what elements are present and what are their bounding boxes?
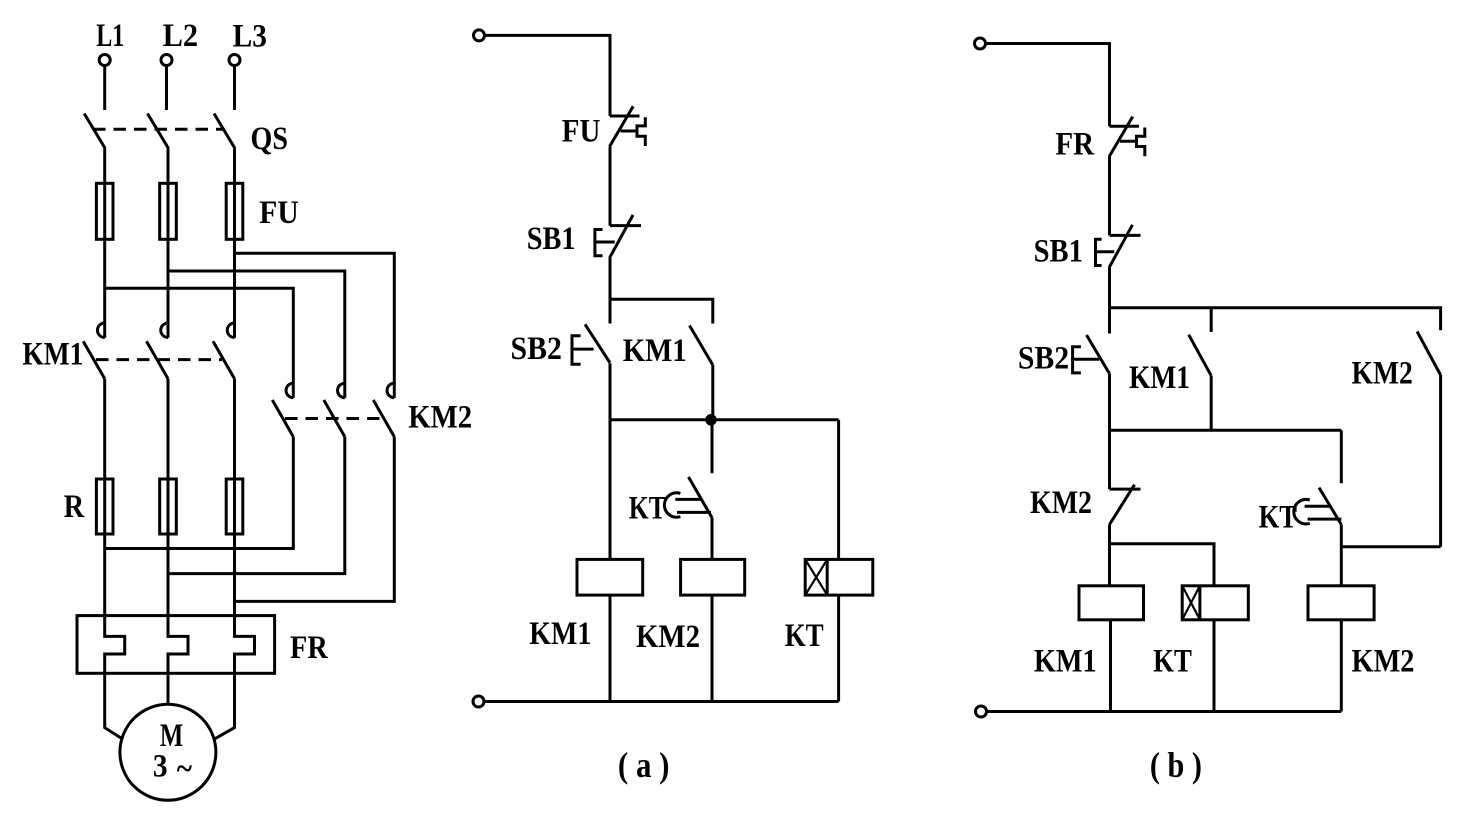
coil KT (b) <box>1182 586 1248 712</box>
wire <box>233 66 236 111</box>
thermal relay FR box <box>77 616 275 674</box>
coil KM1 (a) <box>577 559 643 701</box>
wire <box>167 673 170 704</box>
svg-text:SB1: SB1 <box>527 221 576 257</box>
wire <box>103 66 106 111</box>
wire <box>168 271 345 398</box>
svg-text:KM1: KM1 <box>529 616 591 652</box>
svg-text:3: 3 <box>153 748 168 784</box>
svg-text:FR: FR <box>290 630 329 666</box>
wire <box>233 379 236 479</box>
wire <box>1340 525 1343 586</box>
FR heater element 1 <box>105 616 125 674</box>
wire <box>1341 545 1440 548</box>
svg-text:FU: FU <box>562 114 601 150</box>
svg-text:SB1: SB1 <box>1034 233 1083 269</box>
wire <box>711 420 714 473</box>
contact KM1 pole 3 <box>213 323 235 379</box>
contact KM1 aux (b) <box>1189 335 1212 376</box>
wire <box>711 518 714 560</box>
wire <box>214 673 235 739</box>
button SB1 (b) <box>1094 225 1141 268</box>
wire <box>103 534 106 616</box>
svg-text:SB2: SB2 <box>1018 341 1069 377</box>
QS linkage dashed <box>93 128 223 131</box>
svg-text:SB2: SB2 <box>511 331 562 367</box>
terminal L1 <box>99 55 110 66</box>
wire <box>1108 525 1111 586</box>
wire <box>610 418 839 421</box>
svg-text:FR: FR <box>1055 127 1095 163</box>
resistor R pole 2 <box>160 479 177 534</box>
wire <box>609 147 612 226</box>
contact KM2 pole 2 <box>324 383 345 437</box>
resistor R pole 1 <box>96 479 113 534</box>
svg-text:KT: KT <box>629 490 666 526</box>
wire <box>837 420 840 560</box>
wire <box>233 149 236 184</box>
wire <box>484 700 839 703</box>
wire <box>987 710 1342 713</box>
contact KM2 pole 1 <box>272 383 293 437</box>
wire <box>233 534 236 616</box>
terminal L2 <box>161 55 172 66</box>
fuse FU pole 3 <box>226 183 243 239</box>
wire <box>610 299 713 323</box>
switch QS pole 2 <box>148 114 169 149</box>
wire <box>1340 430 1343 483</box>
terminal (b) top <box>975 38 986 49</box>
svg-text:KT: KT <box>785 618 824 654</box>
svg-text:FU: FU <box>259 195 299 231</box>
switch QS pole 3 <box>214 114 235 149</box>
coil KM2 (a) <box>681 559 745 701</box>
coil KM2 (b) <box>1308 586 1374 712</box>
wire <box>167 239 170 337</box>
svg-text:KM1: KM1 <box>22 337 83 373</box>
svg-text:QS: QS <box>251 121 289 157</box>
contact KT (a) <box>664 477 712 518</box>
contact FR (b) <box>1109 117 1145 157</box>
KM2 linkage dashed <box>285 417 381 420</box>
svg-text:KM2: KM2 <box>1352 356 1413 392</box>
svg-text:( b ): ( b ) <box>1150 745 1202 785</box>
wire <box>1108 308 1111 334</box>
terminal (a) top <box>474 30 485 41</box>
wire <box>103 239 106 337</box>
wire <box>103 379 106 479</box>
switch QS pole 1 <box>84 114 105 149</box>
wire <box>1108 268 1111 308</box>
fuse contact FU <box>610 106 646 146</box>
fuse FU pole 1 <box>96 183 113 239</box>
wire <box>1210 308 1213 332</box>
svg-text:KT: KT <box>1259 500 1297 536</box>
svg-text:R: R <box>64 489 86 525</box>
contact KM2 NC (b) <box>1110 485 1141 525</box>
wire <box>609 420 612 560</box>
button SB1 (a) <box>595 215 642 258</box>
wire <box>609 363 612 420</box>
wire <box>1108 157 1111 236</box>
coil KM1 (b) <box>1079 586 1144 712</box>
resistor R pole 3 <box>226 479 243 534</box>
wire <box>168 437 345 574</box>
svg-text:KM1: KM1 <box>1034 643 1097 679</box>
wire <box>105 673 123 739</box>
wire <box>167 534 170 616</box>
wire <box>711 365 714 420</box>
terminal (b) bottom <box>976 706 987 717</box>
svg-text:KM1: KM1 <box>623 333 687 369</box>
wire <box>1110 544 1215 586</box>
contact KM2 pole 3 <box>373 383 394 437</box>
wire <box>105 437 294 549</box>
wire <box>103 149 106 184</box>
svg-text:KM2: KM2 <box>636 619 700 655</box>
wire <box>1108 374 1111 431</box>
svg-text:L2: L2 <box>163 18 199 54</box>
contact KM1 pole 1 <box>83 323 105 379</box>
wire <box>1110 429 1342 432</box>
wire <box>233 239 236 337</box>
terminal (a) bottom <box>473 696 484 707</box>
wire <box>485 35 611 116</box>
svg-text:KM2: KM2 <box>1352 643 1415 679</box>
wire <box>167 379 170 479</box>
motor M <box>120 704 216 800</box>
wire <box>609 299 612 323</box>
wire <box>1108 430 1111 489</box>
wire <box>986 44 1110 127</box>
contact KM1 pole 2 <box>147 323 169 379</box>
button SB2 (b) <box>1071 335 1109 374</box>
svg-text:KM1: KM1 <box>1129 360 1190 396</box>
svg-text:~: ~ <box>177 751 192 787</box>
svg-text:KM2: KM2 <box>408 400 472 436</box>
FR heater element 2 <box>168 616 188 674</box>
fuse FU pole 2 <box>160 183 177 239</box>
wire <box>1439 375 1442 547</box>
contact KM1 aux (a) <box>690 326 713 366</box>
wire <box>167 149 170 184</box>
button SB2 (a) <box>571 324 610 364</box>
svg-text:L1: L1 <box>96 18 124 54</box>
KM1 linkage dashed <box>96 358 222 361</box>
wire <box>105 288 294 398</box>
wire <box>1210 376 1213 431</box>
terminal L3 <box>229 55 240 66</box>
svg-text:KM2: KM2 <box>1030 485 1092 521</box>
junction node <box>705 414 717 426</box>
wire <box>165 66 168 111</box>
svg-text:KT: KT <box>1153 643 1192 679</box>
contact KT (b) <box>1294 488 1341 525</box>
coil KT (a) <box>805 559 873 701</box>
wire <box>609 258 612 299</box>
FR heater element 3 <box>235 616 255 674</box>
svg-text:( a ): ( a ) <box>618 745 670 785</box>
contact KM2 aux (b) <box>1417 332 1441 376</box>
svg-text:L3: L3 <box>233 19 267 55</box>
wire <box>1110 308 1441 331</box>
wire <box>235 437 395 602</box>
wire <box>235 253 395 398</box>
